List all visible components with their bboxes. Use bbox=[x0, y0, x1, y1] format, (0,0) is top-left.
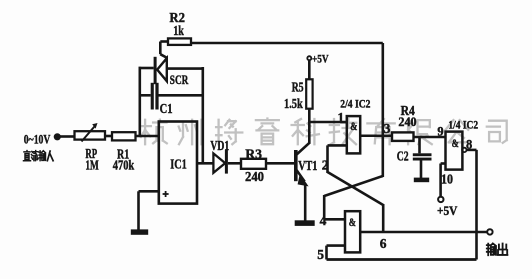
svg-text:+5V: +5V bbox=[437, 203, 458, 218]
svg-text:0~10V: 0~10V bbox=[24, 131, 51, 146]
svg-text:10: 10 bbox=[441, 172, 453, 187]
svg-text:VT1: VT1 bbox=[298, 158, 317, 173]
svg-text:8: 8 bbox=[466, 138, 472, 152]
svg-text:C1: C1 bbox=[160, 102, 173, 117]
svg-text:240: 240 bbox=[398, 115, 416, 129]
svg-text:&: & bbox=[349, 215, 356, 229]
svg-text:5: 5 bbox=[317, 247, 324, 262]
svg-text:&: & bbox=[452, 136, 459, 150]
svg-text:6: 6 bbox=[380, 236, 387, 251]
svg-text:C2: C2 bbox=[397, 149, 409, 164]
svg-text:+5V: +5V bbox=[312, 53, 329, 65]
svg-text:IC1: IC1 bbox=[170, 157, 187, 172]
svg-text:240: 240 bbox=[245, 169, 264, 184]
svg-text:VD1: VD1 bbox=[210, 138, 229, 153]
svg-text:1k: 1k bbox=[173, 24, 184, 39]
svg-text:4: 4 bbox=[320, 213, 327, 228]
svg-text:SCR: SCR bbox=[170, 73, 189, 87]
svg-text:&: & bbox=[350, 119, 357, 133]
svg-text:R3: R3 bbox=[245, 148, 262, 163]
svg-text:1M: 1M bbox=[85, 158, 99, 173]
svg-text:2/4 IC2: 2/4 IC2 bbox=[340, 97, 370, 111]
svg-text:1.5k: 1.5k bbox=[284, 96, 303, 111]
svg-text:2: 2 bbox=[322, 158, 329, 173]
svg-text:1: 1 bbox=[337, 110, 344, 125]
svg-text:1/4 IC2: 1/4 IC2 bbox=[448, 117, 478, 131]
svg-text:R5: R5 bbox=[292, 80, 304, 95]
svg-text:3: 3 bbox=[384, 121, 391, 136]
svg-text:470k: 470k bbox=[113, 158, 135, 173]
svg-text:9: 9 bbox=[437, 125, 443, 139]
